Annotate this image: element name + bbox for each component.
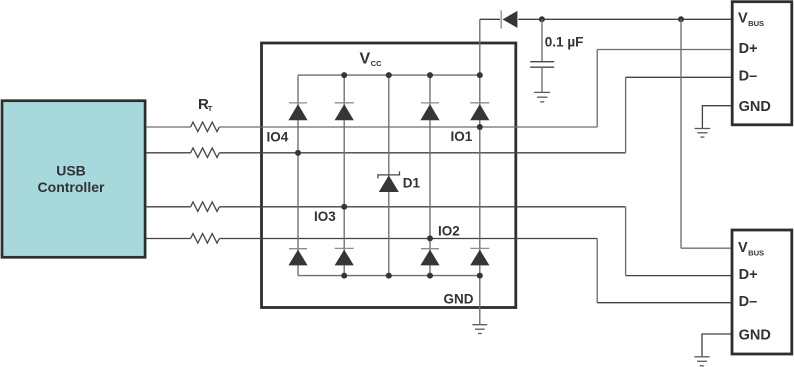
- label J2 VBUS: [738, 240, 764, 258]
- wire VBUS drop to J2: [680, 19, 682, 248]
- label USB Controller: [38, 163, 105, 195]
- diode bottom row channel IO3 (GND to IO3): [335, 248, 354, 265]
- junction dot IO2 line: [427, 235, 433, 241]
- wire channel IO2 vertical: [429, 75, 431, 276]
- svg-text:T: T: [208, 104, 213, 113]
- wire IO2 from RT through U1: [219, 238, 597, 240]
- wire IO2 vertical drop: [596, 239, 598, 303]
- svg-text:D–: D–: [739, 68, 758, 84]
- ground (J1 GND): [695, 129, 711, 138]
- capacitor C1: [530, 19, 554, 92]
- svg-text:Controller: Controller: [38, 179, 105, 195]
- diode bottom row channel IO2 (GND to IO2): [420, 249, 439, 266]
- svg-text:V: V: [360, 50, 371, 67]
- wire IO3 to J2 D+: [626, 275, 731, 277]
- svg-text:IO4: IO4: [267, 129, 289, 144]
- resistor RT (IO2 line): [191, 234, 220, 244]
- svg-text:D1: D1: [403, 175, 421, 190]
- wire J1 GND: [702, 106, 731, 129]
- wire IO4 to J1 D-: [626, 76, 731, 78]
- wire IO4 vertical riser: [625, 77, 627, 153]
- diode top row channel IO2 (IO2 to Vcc): [420, 103, 439, 120]
- junction dot GND rail / IO3 channel: [341, 273, 347, 279]
- junction dot GND rail / center channel: [386, 273, 392, 279]
- diode top row channel IO4 (IO4 to Vcc): [288, 103, 307, 120]
- diode bottom row channel IO4 (GND to IO4): [288, 249, 307, 266]
- wire VBUS top segment (diode to J1): [518, 18, 731, 20]
- wire IO4 from RT through U1: [219, 152, 625, 154]
- label Vcc: [360, 50, 383, 68]
- svg-text:GND: GND: [739, 99, 771, 115]
- svg-text:D+: D+: [739, 41, 758, 57]
- svg-text:D+: D+: [739, 267, 758, 283]
- junction dot GND rail / IO1 channel: [477, 273, 483, 279]
- Vcc rail: [298, 74, 480, 76]
- svg-text:IO2: IO2: [438, 223, 460, 238]
- svg-text:IO1: IO1: [451, 129, 473, 144]
- wire IO3 from USB controller to RT: [146, 206, 191, 208]
- wire U1 GND to ground: [479, 276, 481, 325]
- junction dot GND rail / IO2 channel: [427, 273, 433, 279]
- diode top row channel IO1 (IO1 to Vcc): [470, 103, 489, 121]
- wire IO1 to J1 D+: [597, 49, 731, 51]
- connector J1 (upper USB receptacle): [732, 2, 792, 125]
- resistor RT (IO3 line): [191, 202, 220, 212]
- svg-text:CC: CC: [371, 59, 382, 68]
- junction dot (capacitor tap): [539, 16, 545, 22]
- wire Vcc feed vertical (into U1, channel IO1): [479, 19, 481, 275]
- wire IO3 from RT through U1: [219, 206, 625, 208]
- svg-text:GND: GND: [444, 291, 474, 306]
- wire VBUS into J2: [681, 247, 731, 249]
- wire IO2 from USB controller to RT: [146, 238, 191, 240]
- ground (below C1): [534, 92, 550, 102]
- wire IO3 vertical drop: [625, 207, 627, 276]
- svg-text:0.1 µF: 0.1 µF: [545, 34, 584, 49]
- svg-text:IO3: IO3: [314, 209, 336, 224]
- junction dot Vcc rail / IO3 channel: [341, 72, 347, 78]
- wire IO2 to J2 D-: [597, 302, 731, 304]
- junction dot Vcc rail / IO2 channel: [427, 72, 433, 78]
- junction dot Vcc rail / IO1 channel: [477, 72, 483, 78]
- svg-text:USB: USB: [56, 163, 86, 179]
- wire channel IO3 vertical: [343, 75, 345, 276]
- svg-text:V: V: [738, 11, 748, 27]
- wire IO1 from USB controller to RT: [146, 126, 191, 128]
- diode bottom row channel IO1 (GND to IO1): [470, 248, 489, 265]
- wire IO1 from RT through U1: [219, 126, 597, 128]
- svg-text:V: V: [738, 240, 748, 256]
- junction dot Vcc rail / center channel: [386, 72, 392, 78]
- USB controller block: [2, 101, 145, 258]
- resistor RT (IO1 line): [191, 122, 220, 132]
- wire channel IO4 vertical: [297, 75, 299, 276]
- wire Vcc top segment (U1 to diode): [480, 18, 500, 20]
- svg-text:BUS: BUS: [748, 19, 764, 28]
- connector J2 (lower USB receptacle): [732, 230, 792, 354]
- blocking diode (VBUS to Vcc): [501, 10, 517, 28]
- ground (J2 GND): [694, 357, 709, 366]
- resistor RT (IO4 line): [191, 148, 220, 158]
- TVS diode array box U1: [262, 43, 516, 308]
- svg-text:GND: GND: [739, 327, 771, 343]
- wire IO4 from USB controller to RT: [146, 152, 191, 154]
- zener diode D1: [378, 171, 400, 192]
- svg-text:D–: D–: [739, 294, 758, 310]
- GND rail: [298, 275, 480, 277]
- label J1 VBUS: [738, 11, 764, 29]
- wire center channel vertical (D1): [388, 75, 390, 276]
- wire IO1 vertical riser: [596, 50, 598, 128]
- label RT: [198, 96, 213, 113]
- wire J2 GND: [702, 334, 731, 356]
- ground (U1 GND): [472, 325, 487, 334]
- junction dot IO3 line: [341, 204, 347, 210]
- svg-text:BUS: BUS: [748, 249, 764, 258]
- junction dot IO4 line: [295, 150, 301, 156]
- junction dot IO1 line: [477, 124, 483, 130]
- diode top row channel IO3 (IO3 to Vcc): [335, 103, 354, 121]
- junction dot (J2 VBUS tap): [678, 16, 684, 22]
